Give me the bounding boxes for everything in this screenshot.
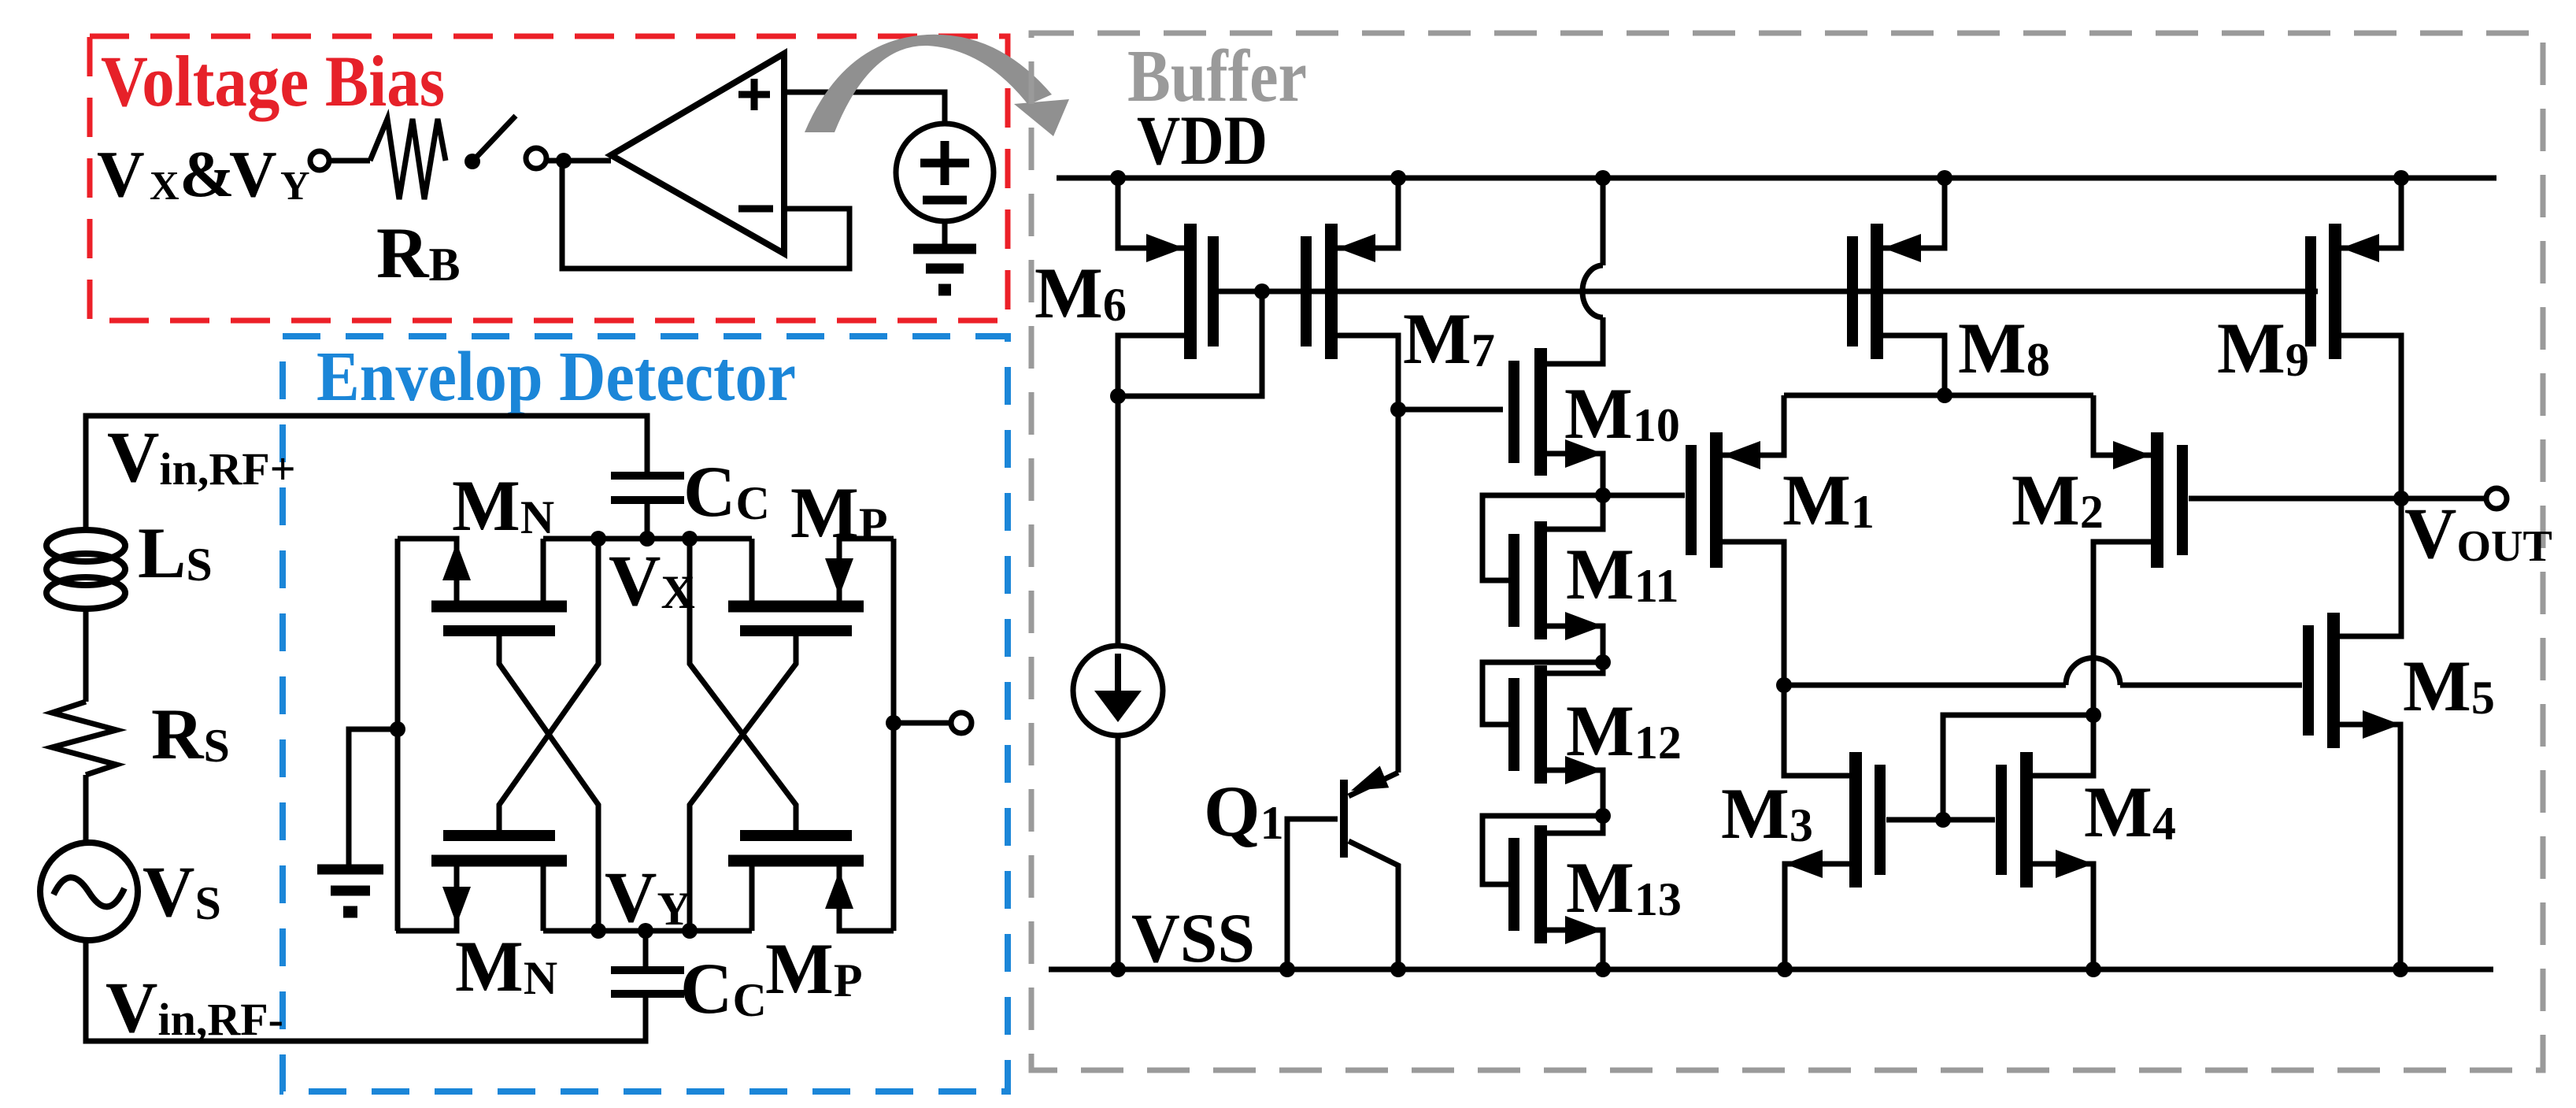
wire [894, 721, 951, 726]
label M7 [1403, 298, 1495, 379]
label VDD [1137, 102, 1268, 180]
terminal: VX&VY input [310, 151, 329, 170]
label M2 [2012, 460, 2104, 540]
node: M2/M4 drain [2086, 707, 2101, 723]
label Vin,RF+ [107, 417, 296, 497]
svg-text:VDD: VDD [1137, 102, 1268, 180]
node VOUT [2393, 491, 2409, 506]
wire: M3/M4 gate tie [1943, 715, 2093, 820]
label M1 [1782, 460, 1875, 540]
wire: M5 gate (hop over M2 drain) [1784, 658, 2302, 686]
resistor RS [52, 702, 117, 775]
wire: right rail [891, 539, 897, 931]
label M12 [1566, 691, 1682, 771]
box: Envelop Detector region (blue dashed) [283, 336, 1008, 1091]
terminal VOUT [2486, 488, 2507, 509]
label MN bottom [455, 926, 557, 1006]
node [1110, 388, 1126, 404]
svg-text:Voltage Bias: Voltage Bias [101, 41, 445, 121]
transistor M12 (NMOS, diode) [1482, 662, 1603, 816]
label M9 [2217, 308, 2309, 388]
label M10 [1564, 373, 1680, 454]
wire [83, 775, 89, 843]
switch S1 [464, 116, 546, 169]
wire: VDD to M10 drain (hop over bus) [1547, 178, 1603, 364]
op-amp U1 [611, 54, 784, 254]
wire: gate bus M6-M7-M8-M9 [1213, 289, 2318, 295]
wire [330, 158, 370, 164]
label M3 [1721, 773, 1813, 854]
box: Buffer region (gray dashed) [1031, 33, 2543, 1070]
label M13 [1566, 847, 1682, 928]
transistor M4 (NMOS) [1943, 715, 2093, 969]
label VS [142, 851, 221, 932]
capacitor CC bottom [611, 931, 684, 994]
wire: M6 drain to gate [1118, 291, 1262, 396]
ground (envelope) [317, 869, 383, 912]
wire [83, 607, 89, 702]
node VSS junctions [1110, 962, 2408, 977]
label M4 [2084, 772, 2176, 852]
ground (bias) [913, 249, 976, 290]
label M5 [2403, 646, 2495, 726]
wire: MN top gate to VY [499, 636, 598, 931]
wire: VX to MN bottom gate [499, 539, 598, 830]
title: Envelop Detector [316, 338, 796, 416]
transistor MP bottom-right (PMOS) [728, 836, 894, 931]
label RB [376, 213, 460, 293]
node VX junctions [590, 531, 698, 547]
transistor M5 (NMOS) [2308, 498, 2401, 969]
wire: M2 gate to VOUT [2189, 496, 2401, 502]
node: M1 drain / M5 gate [1776, 677, 1792, 693]
label MN top [452, 465, 554, 546]
label Q1 [1204, 771, 1284, 851]
node [1254, 283, 1270, 299]
wire: VSS rail [1049, 967, 2493, 973]
transistor M2 (PMOS) [2093, 395, 2182, 715]
node: M10/M11 [1595, 487, 1611, 503]
node: M11/M12 [1595, 654, 1611, 670]
terminal: detector output [951, 713, 972, 733]
node: detector output [886, 715, 901, 731]
wire: left rail [395, 539, 401, 931]
transistor M1 (PMOS) [1691, 395, 1849, 776]
wire [547, 158, 611, 164]
label VOUT [2404, 493, 2552, 573]
wire: Vin,RF- to CC bottom [86, 940, 646, 1041]
transistor M9 (PMOS) [2311, 178, 2401, 498]
label VX&VY [97, 138, 310, 211]
arrow: bias to buffer (gray) [805, 35, 1069, 136]
label CC bottom [680, 948, 767, 1028]
transistor M10 (NMOS) [1398, 348, 1603, 495]
box: Voltage Bias region (red dashed) [90, 36, 1008, 321]
wire: M1 gate [1603, 493, 1685, 498]
node: M7 drain / M10 gate [1390, 402, 1406, 417]
node VY junctions [590, 923, 698, 939]
title: Buffer [1127, 35, 1307, 117]
source VS [40, 843, 138, 940]
wire [942, 221, 948, 246]
wire [2401, 496, 2486, 502]
label M6 [1034, 253, 1127, 333]
label MP top [790, 472, 888, 553]
label M11 [1566, 534, 1679, 614]
node: M3/M4 gates [1935, 812, 1951, 828]
node: op-amp output [556, 153, 572, 169]
wire: VDD rail [1057, 176, 2496, 181]
label RS [151, 694, 230, 774]
wire: feedback loop [562, 161, 849, 269]
wire [349, 729, 398, 865]
wire: Vin,RF+ to CC top [86, 416, 647, 532]
label VSS [1131, 900, 1255, 977]
label VX [609, 540, 695, 621]
label VY [605, 857, 691, 937]
transistor M7 (PMOS) [1306, 178, 1398, 773]
label LS [138, 513, 213, 593]
title: Voltage Bias [101, 41, 445, 121]
wire: op-amp + input [784, 92, 945, 124]
current source I1 [1073, 396, 1163, 969]
transistor M13 (NMOS, diode) [1482, 816, 1603, 969]
wire: MP top gate to VY [690, 636, 796, 931]
label M8 [1958, 308, 2050, 388]
transistor MP top-right (PMOS) [728, 539, 894, 631]
label CC top [683, 451, 770, 532]
voltage source V1 [896, 124, 994, 221]
transistor Q1 (PNP) [1287, 766, 1398, 970]
wire: VX to MP bottom gate [690, 539, 796, 830]
capacitor CC top [611, 476, 684, 539]
wire: VY rail [543, 928, 752, 934]
label Vin,RF- [105, 967, 283, 1047]
transistor M11 (NMOS, diode) [1482, 495, 1603, 662]
label MP bottom [765, 928, 863, 1009]
node: M12/M13 [1595, 808, 1611, 824]
node VDD junctions [1110, 170, 2409, 186]
node: ground tap [390, 721, 405, 737]
transistor MN bottom-left (NMOS) [396, 836, 567, 931]
resistor RB [370, 119, 446, 199]
inductor LS [46, 530, 125, 609]
transistor M6 (PMOS) [1118, 178, 1213, 396]
svg-text:VSS: VSS [1131, 900, 1255, 977]
wire: VX rail [543, 536, 752, 542]
wire: tail node from M8 [1784, 393, 2093, 398]
transistor M8 (PMOS) [1852, 178, 1945, 395]
svg-text:Envelop Detector: Envelop Detector [316, 338, 796, 416]
transistor MN top-left (NMOS) [398, 539, 567, 631]
node: M8 drain [1937, 387, 1952, 403]
transistor M3 (NMOS) [1785, 752, 1943, 969]
